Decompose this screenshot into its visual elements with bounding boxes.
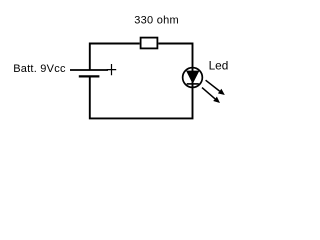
wire: battery - terminal down, across bottom, up to LED cathode — [90, 76, 193, 118]
svg-text:Batt. 9Vcc: Batt. 9Vcc — [13, 63, 66, 75]
svg-text:Led: Led — [209, 59, 229, 73]
label "Batt. 9Vcc" (battery value) — [13, 63, 66, 75]
label "330 ohm" (resistor value) — [134, 14, 179, 26]
LED D1: anode/cathode lead inside circle — [192, 68, 194, 88]
LED emission arrow (lower) — [202, 88, 220, 103]
battery B1: long positive plate — [70, 69, 108, 71]
wire: battery + terminal up and across to resistor left lead — [90, 44, 140, 70]
battery B1: short negative plate — [79, 75, 100, 77]
label "Led" (LED name) — [209, 59, 229, 73]
wire: resistor right lead across and down to LED anode — [158, 44, 192, 68]
LED emission arrow (upper) — [206, 80, 225, 95]
resistor R1 (box body) — [141, 38, 158, 49]
LED D1: diode triangle (anode) — [187, 71, 199, 83]
battery plus sign — [107, 64, 117, 75]
svg-text:330 ohm: 330 ohm — [134, 14, 179, 26]
LED D1: cathode bar — [187, 83, 199, 85]
LED D1: circle body — [183, 68, 203, 88]
